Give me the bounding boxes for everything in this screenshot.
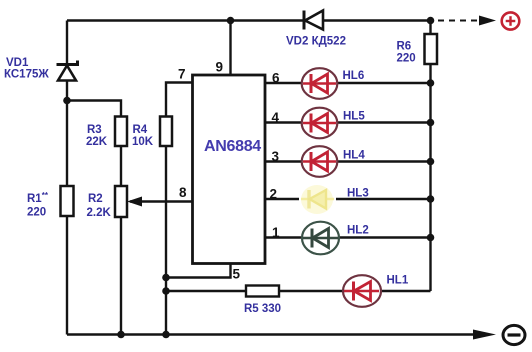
LED HL2 green (302, 222, 339, 255)
LED HL1 (343, 275, 381, 307)
node at VD1 bottom (63, 97, 71, 105)
wire pin 9 stub (229, 21, 231, 76)
svg-text:R3: R3 (87, 124, 102, 136)
LED HL4 (302, 146, 338, 177)
node R5 rail (162, 287, 170, 295)
svg-text:10K: 10K (132, 136, 154, 148)
node R4 rail bottom bus (162, 331, 170, 339)
wire pin 6 row HL6 (265, 82, 431, 84)
arrowhead to minus terminal (473, 330, 496, 340)
wire pin 8 wiper (130, 200, 193, 202)
label VD1 КС175Ж (4, 57, 49, 81)
wire right vertical bus (429, 21, 431, 292)
svg-text:R6: R6 (397, 41, 412, 53)
resistor R4 (160, 117, 172, 147)
wire pin 7 to R4 and down to bottom bus (166, 83, 193, 335)
LED HL5 (302, 108, 338, 139)
wire R5 / HL1 row (166, 290, 431, 292)
wire pin 1 row HL2 (265, 236, 431, 238)
svg-text:R4: R4 (133, 124, 148, 136)
node top right bus (427, 17, 435, 25)
wire pin 2 row HL3 right segment (336, 198, 431, 200)
svg-text:5: 5 (233, 267, 241, 282)
svg-text:4: 4 (272, 110, 280, 125)
node HL6 right bus (427, 79, 435, 87)
svg-text:AN6884: AN6884 (204, 138, 261, 155)
svg-text:HL3: HL3 (347, 188, 369, 200)
svg-text:7: 7 (178, 67, 186, 82)
node HL2 right bus (427, 234, 435, 242)
wire pin 3 row HL4 (265, 160, 431, 162)
svg-text:VD1: VD1 (6, 57, 29, 69)
label R4 10K (132, 124, 154, 148)
LED HL6 (302, 68, 338, 99)
dashed wire to plus terminal (438, 20, 479, 22)
svg-text:HL2: HL2 (347, 225, 369, 237)
svg-text:9: 9 (216, 60, 224, 75)
node pin 5 rail (162, 274, 170, 282)
node HL4 right bus (427, 158, 435, 166)
svg-text:220: 220 (27, 207, 46, 219)
svg-text:1: 1 (272, 225, 280, 240)
svg-text:HL1: HL1 (387, 275, 409, 287)
label R1 220 (27, 191, 49, 219)
svg-text:3: 3 (272, 149, 280, 164)
wire pin 4 row HL5 (265, 121, 431, 123)
node HL5 right bus (427, 119, 435, 127)
wire pin 2 row HL3 left segment (265, 198, 299, 200)
wire branch from VD1 node to R3/R2 column (67, 101, 121, 335)
minus terminal (503, 325, 525, 344)
svg-text:22K: 22K (86, 136, 108, 148)
svg-text:R5 330: R5 330 (244, 303, 281, 315)
resistor R6 (425, 34, 438, 64)
svg-text:6: 6 (272, 71, 280, 86)
svg-text:КС175Ж: КС175Ж (4, 69, 49, 81)
node HL3 right bus (427, 195, 435, 203)
node pin 9 top bus (227, 17, 235, 25)
wire left vertical rail (66, 21, 68, 335)
arrowhead wiper to R2 (127, 197, 142, 207)
zener diode VD1 (57, 61, 78, 81)
svg-text:HL5: HL5 (343, 111, 365, 123)
svg-text:R2: R2 (88, 193, 103, 205)
resistor R3 (115, 117, 127, 147)
arrowhead to plus terminal (479, 16, 496, 26)
wire bottom bus (67, 333, 477, 335)
plus terminal (502, 12, 520, 29)
op-amp U1 AN6884 IC body (193, 75, 266, 264)
svg-text:VD2 КД522: VD2 КД522 (286, 36, 346, 48)
wire pin 5 to node on R4 rail (166, 264, 231, 278)
wire top bus (67, 19, 431, 21)
node R2 bottom bus (117, 331, 125, 339)
diode VD2 (304, 11, 323, 30)
potentiometer R2 (115, 186, 127, 217)
svg-text:2.2K: 2.2K (87, 207, 112, 219)
LED HL3 yellow (301, 185, 334, 214)
svg-text:HL6: HL6 (343, 70, 365, 82)
label R6 220 (397, 41, 416, 65)
label R2 2.2K (87, 193, 112, 219)
resistor R1 (61, 186, 74, 216)
svg-text:220: 220 (397, 53, 416, 65)
resistor R5 (246, 286, 279, 297)
svg-text:8: 8 (179, 185, 187, 200)
svg-text:HL4: HL4 (343, 150, 365, 162)
svg-text:2: 2 (270, 187, 278, 202)
label R3 22K (86, 124, 108, 148)
